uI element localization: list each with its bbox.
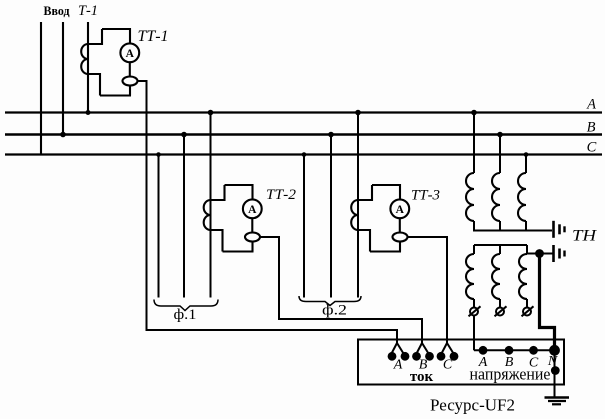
svg-text:ф.1: ф.1 [174, 307, 197, 323]
VT TH primary winding A [466, 173, 474, 221]
ground secondary [554, 245, 565, 262]
wire T-1 phase [87, 22, 89, 113]
terminal current A [392, 343, 404, 354]
bus A [5, 111, 602, 113]
wire secondary ground branch [527, 253, 553, 255]
node input2-busB [60, 132, 66, 138]
svg-text:А: А [393, 358, 403, 373]
node f1C [156, 152, 161, 157]
feeder f.1 wire A [210, 113, 212, 298]
VT secondary winding B [499, 245, 501, 254]
svg-text:ТТ-2: ТТ-2 [266, 187, 297, 203]
bus B [5, 133, 602, 135]
svg-text:В: В [587, 120, 596, 136]
node vtB [497, 132, 503, 138]
svg-text:С: С [587, 140, 597, 156]
wire VT primary C [525, 155, 527, 174]
wire TT-3 secondary [408, 237, 448, 343]
wire primary star [474, 221, 552, 231]
wire TT-2 secondary [260, 237, 422, 343]
svg-text:напряжение: напряжение [470, 365, 551, 384]
node vtC [524, 152, 529, 157]
transformer TT-3 [351, 185, 409, 252]
svg-text:С: С [443, 358, 453, 373]
VT secondary winding A [473, 245, 475, 254]
wire voltage terminal strip [474, 349, 555, 351]
svg-text:Ввод: Ввод [44, 3, 70, 18]
ground meter N [545, 398, 570, 405]
wire input 2 [62, 22, 64, 135]
brace f.2 [299, 296, 361, 306]
terminal voltage N [549, 345, 560, 356]
wire N to ground [554, 350, 556, 397]
svg-text:ф.2: ф.2 [322, 303, 347, 319]
feeder f.2 wire B [330, 135, 332, 298]
brace f.1 [154, 300, 218, 311]
svg-text:Ресурс-UF2: Ресурс-UF2 [430, 396, 515, 415]
fuse A [473, 299, 475, 308]
fuse C [526, 299, 528, 308]
feeder f.2 wire A [357, 113, 359, 298]
svg-text:ТН: ТН [572, 228, 598, 245]
fuse B [499, 299, 501, 308]
node T1-busA [86, 110, 91, 115]
transformer TT-2 [204, 185, 262, 252]
node f2B [328, 132, 334, 138]
node f2C [302, 152, 307, 157]
terminal voltage C [529, 346, 538, 355]
wire VT primary B [499, 135, 501, 174]
svg-text:ТТ-1: ТТ-1 [138, 28, 169, 45]
VT TH primary winding C [518, 173, 526, 221]
transformer TT-1 [81, 29, 139, 96]
meter box Resurs-UF2 [358, 340, 564, 385]
wire secondary common [474, 244, 527, 246]
feeder f.1 wire C [158, 155, 160, 298]
terminal voltage A [479, 346, 488, 355]
wire VT primary A [473, 113, 475, 174]
node f1A [208, 110, 214, 116]
wire TT-1 secondary [138, 81, 398, 343]
svg-text:А: А [586, 97, 596, 113]
ground primary neutral [554, 221, 565, 238]
node f1B [181, 132, 187, 138]
feeder f.1 wire B [183, 135, 185, 298]
node vtA [471, 110, 477, 116]
svg-text:ТТ-3: ТТ-3 [411, 188, 440, 204]
bus C [5, 153, 602, 155]
terminal current C [442, 343, 454, 354]
terminal voltage B [505, 346, 514, 355]
wire neutral thick [540, 254, 555, 351]
svg-text:Т-1: Т-1 [78, 3, 98, 19]
VT TH primary winding B [492, 173, 500, 221]
terminal current B [417, 343, 429, 354]
node N lower [551, 366, 560, 375]
wire voltage A to meter [473, 316, 475, 351]
node secondary neutral [535, 249, 544, 258]
VT secondary winding C [526, 245, 528, 254]
svg-text:ток: ток [410, 369, 434, 385]
wire input 1 [40, 22, 42, 155]
feeder f.2 wire C [303, 155, 305, 298]
node f2A [355, 110, 361, 116]
